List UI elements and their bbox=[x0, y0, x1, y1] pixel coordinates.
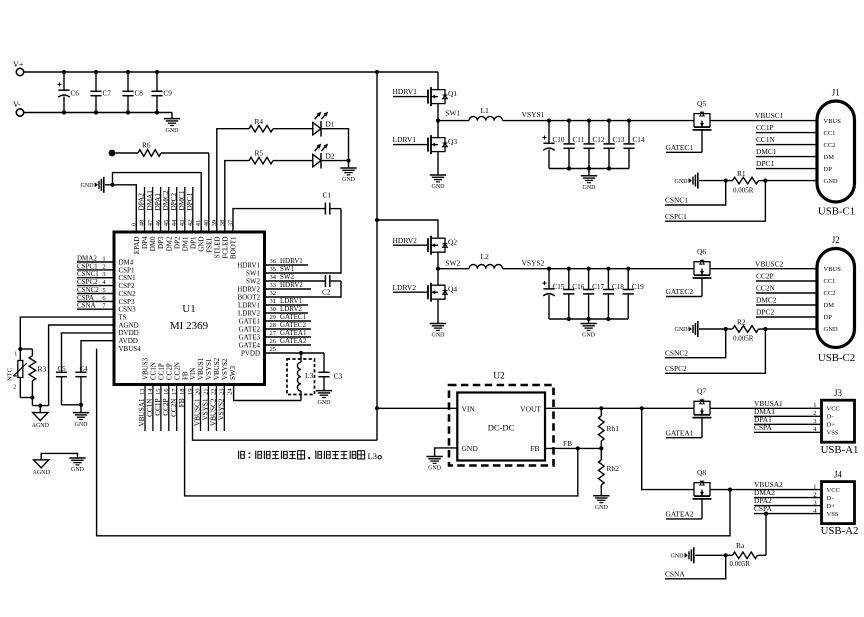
svg-text:FSEL: FSEL bbox=[206, 237, 214, 253]
resistor Rb2 bbox=[599, 448, 620, 495]
wire to Q2 drain bbox=[377, 220, 438, 238]
connector J3 USB-A1 bbox=[813, 388, 858, 456]
svg-text:25: 25 bbox=[270, 346, 277, 353]
svg-text:CSN2: CSN2 bbox=[119, 290, 137, 298]
svg-text:C8: C8 bbox=[135, 90, 144, 98]
label LDRV2 bbox=[393, 283, 429, 292]
svg-text:33: 33 bbox=[270, 282, 277, 289]
svg-text:CC1: CC1 bbox=[824, 130, 836, 137]
U1 left pin names bbox=[119, 258, 142, 353]
svg-text:CC1N: CC1N bbox=[756, 135, 776, 144]
label GATEC2 bbox=[666, 278, 703, 297]
svg-text:CSN3: CSN3 bbox=[119, 306, 137, 314]
wire GND to pin41 bbox=[113, 173, 202, 232]
svg-text:SW2: SW2 bbox=[280, 273, 295, 281]
capacitor C7 bbox=[90, 72, 111, 113]
svg-text:36: 36 bbox=[270, 258, 277, 265]
svg-text:BOOT1: BOOT1 bbox=[230, 236, 238, 259]
svg-text:GATEA2: GATEA2 bbox=[280, 337, 307, 345]
svg-text:C5: C5 bbox=[58, 365, 67, 373]
wire VOUT to Q8 bbox=[642, 408, 694, 489]
transistor Q3 bbox=[428, 135, 457, 154]
ground C4 bbox=[73, 405, 89, 428]
wire V+ rail bbox=[23, 70, 438, 74]
wire GND to EPAD bbox=[113, 185, 137, 232]
svg-text:C15: C15 bbox=[553, 283, 565, 291]
svg-text:2: 2 bbox=[102, 263, 105, 270]
transistor Q5 bbox=[693, 99, 712, 130]
svg-text:42: 42 bbox=[187, 220, 194, 227]
svg-text:CSPA: CSPA bbox=[754, 504, 772, 513]
svg-text:CSN1: CSN1 bbox=[119, 274, 137, 282]
svg-text:VSYS2: VSYS2 bbox=[221, 358, 229, 380]
svg-text:VBUSC1: VBUSC1 bbox=[194, 398, 202, 426]
svg-text:SW1: SW1 bbox=[246, 269, 261, 277]
label CSNC2 bbox=[665, 329, 726, 358]
resistor R6 bbox=[115, 141, 208, 157]
wire C2 to BOOT2 bbox=[265, 281, 342, 297]
ground Q4 bbox=[430, 324, 446, 339]
capacitor C5 bbox=[56, 333, 114, 405]
node D2 cathode bbox=[321, 159, 351, 163]
label HDRV2 bbox=[393, 236, 429, 245]
svg-text:DMC1: DMC1 bbox=[756, 147, 777, 156]
svg-text:SW3: SW3 bbox=[229, 366, 237, 381]
resistor R5 bbox=[249, 149, 313, 164]
svg-text:AGND: AGND bbox=[33, 470, 51, 476]
svg-text:Q2: Q2 bbox=[448, 238, 457, 247]
svg-text:DP: DP bbox=[824, 166, 833, 173]
svg-text:FB: FB bbox=[181, 371, 189, 380]
wire Q4 source bbox=[437, 299, 439, 323]
svg-text:CC2N: CC2N bbox=[170, 398, 178, 417]
svg-text:CSNA: CSNA bbox=[665, 569, 685, 578]
svg-text:1: 1 bbox=[14, 351, 17, 357]
capacitor C10 bbox=[543, 121, 565, 169]
connector J1 USB-C1 bbox=[817, 88, 855, 218]
svg-text:DM2: DM2 bbox=[165, 236, 173, 251]
capacitor C6 bbox=[58, 72, 80, 113]
svg-text:V+: V+ bbox=[13, 60, 24, 69]
svg-text:2: 2 bbox=[813, 491, 816, 498]
LED D1 bbox=[313, 112, 335, 137]
svg-text:D1: D1 bbox=[325, 120, 334, 129]
svg-text:13: 13 bbox=[139, 389, 146, 396]
wire R3 bottom bbox=[20, 395, 48, 407]
svg-text:2: 2 bbox=[13, 385, 16, 391]
node VSYS1 bbox=[522, 110, 695, 123]
capacitor C3 bbox=[318, 353, 342, 391]
svg-text:Rb2: Rb2 bbox=[607, 464, 620, 473]
svg-text:0.005R: 0.005R bbox=[730, 560, 751, 568]
ground R2 bbox=[675, 321, 726, 337]
label CC1P bbox=[756, 123, 817, 132]
svg-text:GATE2: GATE2 bbox=[239, 325, 261, 333]
svg-text:GND: GND bbox=[432, 184, 446, 190]
svg-text:CSNC2: CSNC2 bbox=[77, 286, 99, 294]
wire VSYS1 bank bottom bbox=[549, 166, 629, 170]
svg-text:DPA2: DPA2 bbox=[138, 193, 146, 211]
svg-text:VSYS2: VSYS2 bbox=[218, 398, 226, 420]
terminal V+ bbox=[13, 60, 24, 76]
svg-text:VBUSA1: VBUSA1 bbox=[138, 398, 146, 426]
svg-text:R1: R1 bbox=[737, 169, 746, 178]
svg-text:CSPA: CSPA bbox=[77, 294, 94, 302]
svg-text:C4: C4 bbox=[80, 365, 89, 373]
svg-text:5: 5 bbox=[102, 287, 105, 294]
svg-text:35: 35 bbox=[270, 266, 277, 273]
svg-text:DMA1: DMA1 bbox=[146, 190, 154, 211]
wire FCLED bbox=[225, 161, 249, 232]
wire VIN U1 bbox=[193, 385, 378, 441]
svg-text:HDRV2: HDRV2 bbox=[237, 285, 260, 293]
svg-text:C18: C18 bbox=[612, 283, 624, 291]
svg-text:DM0: DM0 bbox=[149, 236, 157, 251]
wire VSYS2 bank bottom bbox=[549, 317, 628, 321]
svg-text:L3: L3 bbox=[305, 371, 314, 380]
svg-text:CC1: CC1 bbox=[824, 278, 836, 285]
node SW1 bbox=[438, 109, 469, 121]
svg-text:17: 17 bbox=[171, 388, 178, 395]
svg-text:DPC2: DPC2 bbox=[756, 308, 774, 317]
wire Q3 source bbox=[437, 152, 439, 175]
ground tie AGND-GND bbox=[33, 453, 86, 476]
svg-text:PVDD: PVDD bbox=[241, 349, 260, 357]
svg-text:DP3: DP3 bbox=[157, 236, 165, 249]
transistor Q6 bbox=[693, 247, 712, 278]
ground Q3 bbox=[430, 175, 446, 190]
svg-text:VCC: VCC bbox=[827, 487, 840, 494]
svg-text:DC-DC: DC-DC bbox=[488, 423, 515, 433]
wire STLED bbox=[217, 129, 249, 232]
svg-text:VBUS: VBUS bbox=[824, 118, 842, 125]
svg-text:VIN: VIN bbox=[189, 368, 197, 380]
svg-text:1: 1 bbox=[813, 402, 816, 409]
svg-text:GATEC1: GATEC1 bbox=[666, 143, 694, 152]
svg-text:CSNA: CSNA bbox=[77, 302, 96, 310]
svg-text:J3: J3 bbox=[834, 388, 843, 398]
svg-text:CC1P: CC1P bbox=[158, 363, 166, 380]
svg-text:GND: GND bbox=[75, 422, 89, 428]
transistor Q1 bbox=[428, 87, 457, 106]
wire VBUSC1 bbox=[710, 111, 817, 120]
svg-text:USB-C1: USB-C1 bbox=[818, 206, 855, 218]
svg-text:GND: GND bbox=[675, 179, 689, 185]
svg-text:HDRV2: HDRV2 bbox=[280, 281, 303, 289]
svg-text:22: 22 bbox=[211, 389, 218, 396]
svg-text:DM1: DM1 bbox=[181, 236, 189, 251]
svg-text:GND: GND bbox=[428, 466, 442, 472]
wire L1 to VSYS1 bbox=[503, 120, 549, 122]
svg-text:C14: C14 bbox=[633, 136, 645, 144]
terminal V- bbox=[13, 100, 24, 116]
label DMC1 bbox=[756, 147, 817, 156]
label DPA2 bbox=[754, 496, 822, 505]
svg-text:C19: C19 bbox=[632, 283, 644, 291]
svg-text:45: 45 bbox=[163, 220, 170, 227]
svg-text:AGND: AGND bbox=[32, 423, 50, 429]
svg-text:SW2: SW2 bbox=[246, 277, 261, 285]
svg-text:GND: GND bbox=[166, 128, 180, 134]
svg-text:C17: C17 bbox=[592, 283, 604, 291]
connector J4 USB-A2 bbox=[813, 470, 858, 538]
svg-text:C1: C1 bbox=[323, 190, 332, 199]
IC U2 dashed box bbox=[449, 372, 554, 466]
transistor Q8 bbox=[693, 468, 712, 499]
svg-text:J2: J2 bbox=[832, 235, 840, 245]
label CSNC1 bbox=[665, 181, 726, 205]
wire SW3 to L3 bbox=[234, 385, 301, 401]
wire Q2 source to SW2 bbox=[436, 252, 440, 271]
svg-text:GND: GND bbox=[81, 183, 95, 189]
svg-text:1: 1 bbox=[813, 483, 816, 490]
svg-text:31: 31 bbox=[270, 298, 277, 305]
wire C1 to SW1 bbox=[265, 209, 342, 273]
U1 right pin numbers 35 34 32 25 bbox=[270, 265, 295, 353]
svg-text:0.005R: 0.005R bbox=[733, 335, 754, 343]
wire VBUS4 net bbox=[97, 349, 730, 536]
svg-text:USB-C2: USB-C2 bbox=[818, 352, 855, 364]
svg-text:38: 38 bbox=[219, 220, 226, 227]
wire VBUSA1 bbox=[710, 399, 822, 408]
ground input rail bbox=[164, 113, 180, 134]
svg-text:GATE4: GATE4 bbox=[239, 341, 261, 349]
svg-text:CC2P: CC2P bbox=[165, 363, 173, 380]
node VSYS2 bbox=[522, 258, 695, 270]
svg-text:VSYS1: VSYS1 bbox=[202, 398, 210, 420]
svg-text:DP1: DP1 bbox=[189, 236, 197, 249]
svg-text:40: 40 bbox=[203, 220, 210, 227]
svg-text:D+: D+ bbox=[827, 422, 836, 429]
svg-text:VOUT: VOUT bbox=[520, 404, 541, 413]
svg-text:GND: GND bbox=[71, 467, 85, 473]
svg-text:LDRV1: LDRV1 bbox=[280, 297, 302, 305]
svg-text:LDRV2: LDRV2 bbox=[393, 283, 417, 292]
label GATEA1 bbox=[666, 418, 703, 438]
svg-text:29: 29 bbox=[270, 314, 277, 321]
svg-text:GND: GND bbox=[432, 333, 446, 339]
U1 left pin net stubs 1-7 bbox=[77, 254, 114, 309]
wire TS bbox=[18, 317, 114, 351]
svg-text:Rb1: Rb1 bbox=[607, 424, 620, 433]
ground U2 bbox=[426, 457, 442, 472]
svg-text:23: 23 bbox=[219, 389, 226, 396]
svg-text:L1: L1 bbox=[481, 106, 490, 115]
svg-text:VBUSC2: VBUSC2 bbox=[755, 259, 784, 268]
svg-text:HDRV1: HDRV1 bbox=[393, 87, 418, 96]
svg-text:GATE1: GATE1 bbox=[239, 317, 261, 325]
wire SW2 to C2 bbox=[265, 280, 326, 282]
svg-text:SW2: SW2 bbox=[445, 259, 460, 268]
svg-text:GND: GND bbox=[595, 505, 609, 511]
svg-text:DMA2: DMA2 bbox=[77, 254, 97, 262]
ground VSYS1 bank bbox=[581, 169, 597, 192]
svg-text:GND: GND bbox=[824, 326, 838, 333]
svg-text:CSPC2: CSPC2 bbox=[77, 278, 98, 286]
capacitor C8 bbox=[122, 72, 143, 113]
inductor L3 optional box bbox=[287, 359, 315, 395]
svg-text:USB-A1: USB-A1 bbox=[821, 444, 859, 456]
IC U1 body bbox=[114, 232, 265, 385]
svg-text:GATE3: GATE3 bbox=[239, 333, 261, 341]
svg-text:30: 30 bbox=[270, 306, 277, 313]
svg-text:46: 46 bbox=[155, 219, 162, 226]
svg-text:D+: D+ bbox=[827, 503, 836, 510]
label CSPA J3 bbox=[754, 423, 822, 432]
ground LED bbox=[340, 161, 356, 184]
svg-text:14: 14 bbox=[147, 388, 154, 395]
label DPC2 bbox=[756, 308, 817, 317]
U1 right pin net stubs bbox=[265, 257, 312, 345]
LED D2 bbox=[313, 144, 335, 169]
svg-text:LDRV2: LDRV2 bbox=[280, 305, 302, 313]
capacitor C13 bbox=[603, 121, 624, 169]
svg-text:CSPC2: CSPC2 bbox=[665, 364, 687, 373]
U1 top pin numbers bbox=[131, 219, 235, 226]
svg-text:CSPC1: CSPC1 bbox=[665, 212, 687, 221]
svg-text:MI 2369: MI 2369 bbox=[170, 320, 209, 332]
svg-text:DP4: DP4 bbox=[141, 236, 149, 249]
svg-text:C7: C7 bbox=[103, 90, 112, 98]
svg-text:VIN: VIN bbox=[462, 404, 476, 413]
svg-text:CC2N: CC2N bbox=[173, 362, 181, 380]
svg-text:CC2N: CC2N bbox=[756, 284, 776, 293]
svg-text:CSP3: CSP3 bbox=[119, 298, 135, 306]
svg-text:GATEC2: GATEC2 bbox=[280, 321, 307, 329]
inductor L1 bbox=[469, 106, 503, 121]
svg-text:CSNC1: CSNC1 bbox=[665, 196, 688, 205]
svg-text:39: 39 bbox=[211, 220, 218, 227]
svg-text:CSNC2: CSNC2 bbox=[665, 348, 688, 357]
svg-text:FCLED: FCLED bbox=[222, 237, 230, 259]
terminal point R6 bbox=[109, 150, 116, 157]
svg-text:GND: GND bbox=[583, 185, 597, 191]
svg-text:C16: C16 bbox=[572, 283, 584, 291]
svg-text:D-: D- bbox=[827, 414, 834, 421]
wire VIN U2 bbox=[377, 407, 457, 409]
ground Rb2 bbox=[593, 496, 609, 511]
svg-text:D-: D- bbox=[827, 495, 834, 502]
svg-text:1: 1 bbox=[102, 255, 105, 262]
wire V+ to Q1 drain bbox=[437, 72, 439, 90]
svg-text:GND: GND bbox=[342, 177, 356, 183]
svg-text:0.005R: 0.005R bbox=[733, 186, 754, 194]
svg-text:DM: DM bbox=[824, 154, 835, 161]
wire FB net bbox=[185, 385, 578, 496]
svg-text:20: 20 bbox=[195, 389, 202, 396]
label LDRV1 bbox=[393, 135, 429, 144]
label CC1N bbox=[756, 135, 817, 144]
svg-text:DMC2: DMC2 bbox=[756, 296, 777, 305]
resistor R3 bbox=[20, 349, 46, 398]
svg-text:VSYS2: VSYS2 bbox=[522, 258, 545, 267]
svg-text:C6: C6 bbox=[71, 90, 80, 98]
svg-text:3: 3 bbox=[813, 499, 816, 506]
svg-text:32: 32 bbox=[270, 290, 277, 297]
svg-text:FB: FB bbox=[530, 444, 539, 453]
svg-text:R5: R5 bbox=[255, 149, 264, 158]
svg-text:VSYS1: VSYS1 bbox=[522, 110, 545, 119]
svg-text:DM4: DM4 bbox=[119, 258, 134, 266]
svg-text:CC1N: CC1N bbox=[150, 362, 158, 380]
svg-text:Q4: Q4 bbox=[448, 285, 457, 294]
svg-text:VSYS1: VSYS1 bbox=[205, 358, 213, 380]
transistor Q4 bbox=[428, 283, 457, 302]
label GATEA2 bbox=[666, 499, 703, 519]
ground Ra bbox=[671, 547, 726, 563]
svg-text:21: 21 bbox=[203, 389, 210, 396]
svg-text:Q1: Q1 bbox=[448, 89, 457, 98]
svg-text:VBUS4: VBUS4 bbox=[119, 345, 142, 353]
wire C5 C4 gnd bbox=[62, 403, 84, 407]
svg-text:R6: R6 bbox=[142, 141, 151, 150]
svg-text:R3: R3 bbox=[38, 365, 47, 374]
svg-text:CC1P: CC1P bbox=[756, 123, 774, 132]
svg-text:DM: DM bbox=[824, 302, 835, 309]
capacitor C12 bbox=[583, 121, 604, 169]
wire V+ branch bbox=[375, 72, 379, 440]
svg-text:VBUS2: VBUS2 bbox=[213, 357, 221, 380]
svg-text:Q5: Q5 bbox=[697, 99, 706, 108]
wire PVDD bbox=[265, 351, 325, 355]
resistor R2 0.005R bbox=[724, 317, 817, 342]
svg-text:C12: C12 bbox=[593, 136, 605, 144]
svg-text:USB-A2: USB-A2 bbox=[821, 525, 859, 537]
U1 bottom pin net stubs bbox=[145, 385, 224, 432]
ground R1 bbox=[675, 173, 726, 189]
label DPA1 bbox=[754, 415, 822, 424]
capacitor C18 bbox=[603, 269, 624, 319]
analog ground NTC bbox=[32, 406, 50, 429]
wire U2 GND bbox=[435, 448, 458, 457]
wire BOOT1 bbox=[233, 209, 325, 232]
capacitor C14 bbox=[623, 121, 644, 169]
svg-text:LDRV1: LDRV1 bbox=[238, 301, 260, 309]
wire CSPA to Ra bbox=[765, 514, 767, 556]
wire L2 to VSYS2 bbox=[503, 268, 549, 270]
svg-text:CSPA: CSPA bbox=[754, 423, 772, 432]
svg-text:DPA1: DPA1 bbox=[154, 193, 162, 211]
svg-text:27: 27 bbox=[270, 330, 277, 337]
svg-text:2: 2 bbox=[813, 410, 816, 417]
svg-text:VBUS1: VBUS1 bbox=[197, 357, 205, 380]
wire AGND pin9 bbox=[49, 325, 114, 406]
U1 top pin names bbox=[133, 236, 238, 259]
svg-text:C2: C2 bbox=[322, 288, 331, 297]
svg-text:34: 34 bbox=[270, 274, 277, 281]
svg-text:U2: U2 bbox=[493, 372, 505, 382]
svg-text:NTC: NTC bbox=[7, 368, 14, 381]
svg-text:DPC1: DPC1 bbox=[756, 159, 774, 168]
svg-text:GND: GND bbox=[582, 333, 596, 339]
wire VBUSC2 bbox=[710, 259, 817, 268]
svg-text:CSP1: CSP1 bbox=[119, 266, 135, 274]
svg-text:3: 3 bbox=[813, 418, 816, 425]
svg-text:AVDD: AVDD bbox=[119, 337, 138, 345]
svg-text:FB: FB bbox=[563, 439, 572, 448]
svg-text:GATEA1: GATEA1 bbox=[280, 329, 307, 337]
resistor R4 bbox=[249, 117, 313, 132]
resistor Ra 0.005R bbox=[724, 541, 766, 568]
wire SW2 to Q4 drain bbox=[437, 269, 439, 286]
resistor R1 0.005R bbox=[724, 169, 817, 194]
svg-text:GND: GND bbox=[671, 554, 685, 560]
svg-text:CC2: CC2 bbox=[824, 290, 836, 297]
resistor Rb1 bbox=[599, 408, 620, 448]
ground EPAD node bbox=[81, 177, 115, 193]
inductor L3 bbox=[297, 353, 313, 401]
label HDRV1 bbox=[393, 87, 429, 96]
